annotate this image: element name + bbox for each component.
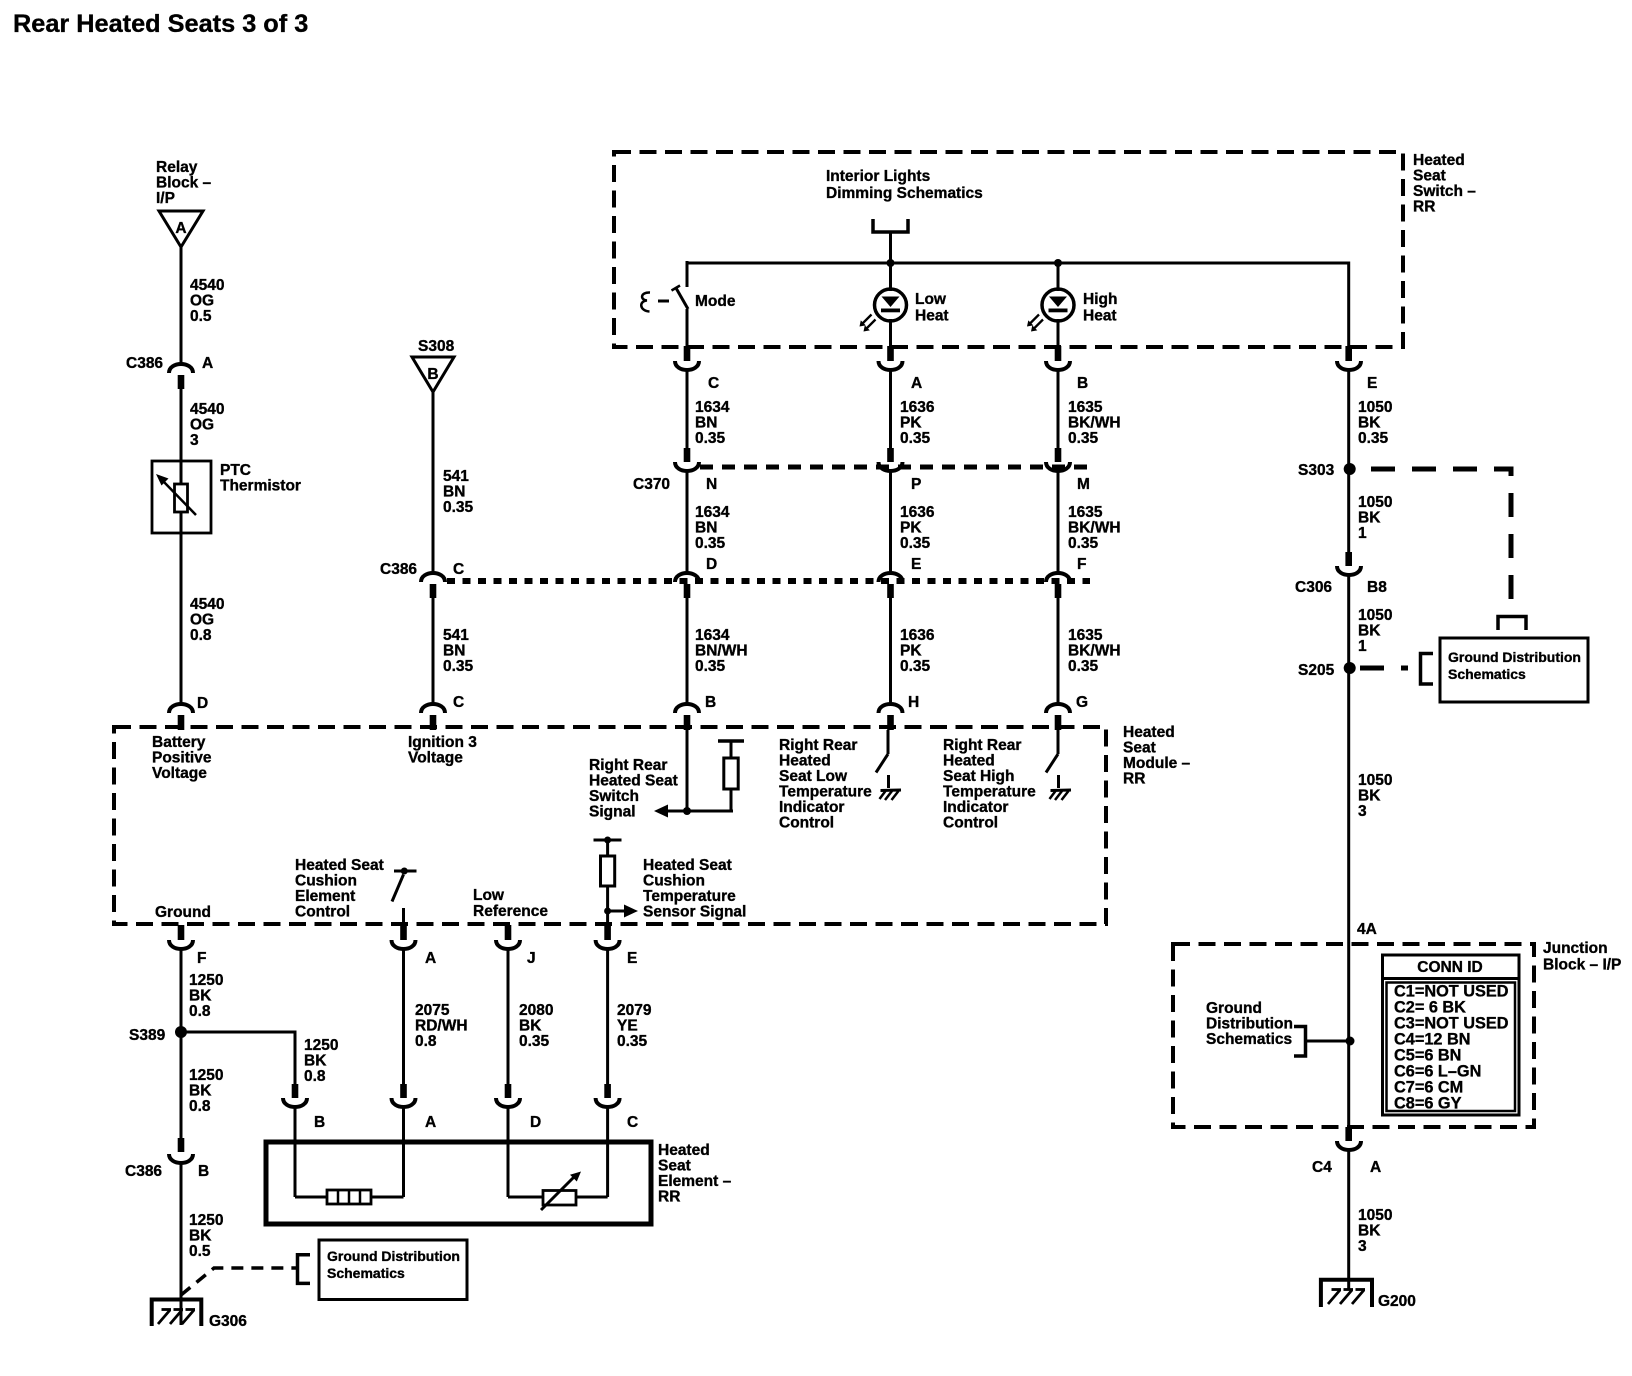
svg-text:B: B — [314, 1114, 325, 1131]
svg-text:OG: OG — [190, 417, 214, 434]
svg-text:Switch –: Switch – — [1413, 183, 1476, 200]
svg-text:0.5: 0.5 — [189, 1243, 211, 1260]
svg-text:F: F — [197, 950, 206, 967]
svg-text:YE: YE — [617, 1018, 638, 1035]
svg-text:3: 3 — [190, 432, 199, 449]
svg-text:BK: BK — [1358, 415, 1381, 432]
svg-text:Block – I/P: Block – I/P — [1543, 957, 1621, 974]
svg-text:541: 541 — [443, 468, 469, 485]
svg-text:Voltage: Voltage — [152, 765, 207, 782]
svg-text:Indicator: Indicator — [943, 799, 1008, 816]
svg-text:Seat: Seat — [658, 1158, 691, 1175]
svg-text:Low: Low — [915, 291, 947, 308]
svg-text:Control: Control — [943, 815, 998, 832]
svg-text:Seat Low: Seat Low — [779, 768, 848, 785]
svg-text:Switch: Switch — [589, 788, 639, 805]
svg-text:1635: 1635 — [1068, 504, 1103, 521]
svg-text:2075: 2075 — [415, 1002, 450, 1019]
svg-text:Heated: Heated — [943, 753, 995, 770]
svg-text:OG: OG — [190, 612, 214, 629]
svg-text:0.8: 0.8 — [189, 1003, 211, 1020]
svg-text:1250: 1250 — [189, 1067, 223, 1084]
svg-text:1634: 1634 — [695, 399, 730, 416]
svg-text:0.35: 0.35 — [519, 1033, 550, 1050]
svg-text:Right Rear: Right Rear — [943, 737, 1021, 754]
svg-text:Rear Heated Seats 3 of 3: Rear Heated Seats 3 of 3 — [13, 10, 308, 38]
svg-text:S389: S389 — [129, 1027, 166, 1044]
svg-text:D: D — [706, 556, 717, 573]
svg-text:Junction: Junction — [1543, 940, 1608, 957]
svg-text:C: C — [453, 561, 464, 578]
svg-text:M: M — [1077, 476, 1090, 493]
svg-text:Heated Seat: Heated Seat — [643, 857, 732, 874]
svg-text:BK: BK — [1358, 623, 1381, 640]
svg-text:PK: PK — [900, 643, 922, 660]
svg-text:CONN ID: CONN ID — [1417, 959, 1482, 976]
svg-text:D: D — [197, 695, 208, 712]
svg-text:0.35: 0.35 — [695, 430, 726, 447]
svg-text:BN: BN — [443, 484, 465, 501]
svg-text:Block –: Block – — [156, 175, 212, 192]
svg-text:C306: C306 — [1295, 579, 1332, 596]
svg-text:Module –: Module – — [1123, 755, 1191, 772]
svg-text:2079: 2079 — [617, 1002, 652, 1019]
svg-text:C386: C386 — [380, 561, 417, 578]
svg-text:RR: RR — [658, 1189, 680, 1206]
svg-text:G306: G306 — [209, 1313, 247, 1330]
svg-text:A: A — [911, 375, 922, 392]
svg-text:0.8: 0.8 — [189, 1098, 211, 1115]
svg-text:P: P — [911, 476, 921, 493]
svg-text:Sensor Signal: Sensor Signal — [643, 904, 746, 921]
svg-text:1250: 1250 — [189, 1212, 223, 1229]
svg-text:Cushion: Cushion — [643, 873, 705, 890]
svg-text:0.35: 0.35 — [1068, 535, 1099, 552]
svg-text:C: C — [708, 375, 719, 392]
svg-text:BK: BK — [189, 1228, 212, 1245]
svg-text:PK: PK — [900, 520, 922, 537]
svg-text:4540: 4540 — [190, 277, 224, 294]
svg-text:Cushion: Cushion — [295, 873, 357, 890]
svg-text:Thermistor: Thermistor — [220, 478, 301, 495]
svg-text:0.8: 0.8 — [190, 627, 212, 644]
svg-text:C370: C370 — [633, 476, 670, 493]
svg-text:BK: BK — [519, 1018, 542, 1035]
svg-text:S303: S303 — [1298, 462, 1335, 479]
svg-text:G: G — [1076, 694, 1088, 711]
svg-text:0.8: 0.8 — [415, 1033, 437, 1050]
svg-text:RR: RR — [1413, 199, 1435, 216]
svg-text:Heated Seat: Heated Seat — [589, 773, 678, 790]
svg-text:Battery: Battery — [152, 734, 206, 751]
svg-text:Indicator: Indicator — [779, 799, 844, 816]
svg-text:Right Rear: Right Rear — [779, 737, 857, 754]
svg-text:Schematics: Schematics — [327, 1265, 405, 1281]
svg-text:I/P: I/P — [156, 190, 175, 207]
svg-text:1: 1 — [1358, 525, 1367, 542]
svg-text:3: 3 — [1358, 803, 1367, 820]
svg-text:Heated Seat: Heated Seat — [295, 857, 384, 874]
svg-text:1636: 1636 — [900, 627, 935, 644]
svg-text:0.35: 0.35 — [1068, 430, 1099, 447]
svg-text:1635: 1635 — [1068, 399, 1103, 416]
svg-text:BN: BN — [695, 520, 717, 537]
svg-text:4540: 4540 — [190, 596, 224, 613]
svg-text:Mode: Mode — [695, 293, 736, 310]
svg-text:0.35: 0.35 — [443, 499, 474, 516]
svg-text:B: B — [427, 366, 438, 383]
svg-text:2080: 2080 — [519, 1002, 553, 1019]
svg-text:A: A — [1370, 1159, 1381, 1176]
svg-text:1635: 1635 — [1068, 627, 1103, 644]
svg-text:Distribution: Distribution — [1206, 1016, 1293, 1033]
svg-text:C386: C386 — [126, 355, 163, 372]
svg-text:Schematics: Schematics — [1448, 666, 1526, 682]
svg-text:Relay: Relay — [156, 159, 198, 176]
svg-text:0.35: 0.35 — [695, 658, 726, 675]
svg-text:OG: OG — [190, 293, 214, 310]
svg-text:3: 3 — [1358, 1238, 1367, 1255]
svg-text:S308: S308 — [418, 338, 455, 355]
svg-text:4A: 4A — [1357, 921, 1377, 938]
svg-text:Ground: Ground — [1206, 1000, 1262, 1017]
svg-text:C386: C386 — [125, 1163, 162, 1180]
svg-text:BK: BK — [304, 1053, 327, 1070]
svg-text:4540: 4540 — [190, 401, 224, 418]
svg-text:0.35: 0.35 — [695, 535, 726, 552]
svg-text:N: N — [706, 476, 717, 493]
svg-text:Heated: Heated — [658, 1142, 710, 1159]
svg-text:1634: 1634 — [695, 504, 730, 521]
svg-text:S205: S205 — [1298, 662, 1335, 679]
svg-text:Low: Low — [473, 887, 505, 904]
svg-text:1636: 1636 — [900, 504, 935, 521]
svg-text:Right Rear: Right Rear — [589, 757, 667, 774]
svg-text:RD/WH: RD/WH — [415, 1018, 468, 1035]
svg-text:Positive: Positive — [152, 750, 212, 767]
svg-text:0.35: 0.35 — [900, 535, 931, 552]
svg-text:B: B — [198, 1163, 209, 1180]
svg-text:PK: PK — [900, 415, 922, 432]
svg-text:E: E — [1367, 375, 1377, 392]
svg-text:BK/WH: BK/WH — [1068, 520, 1121, 537]
svg-text:Heated: Heated — [1413, 152, 1465, 169]
svg-text:PTC: PTC — [220, 462, 251, 479]
svg-text:Ground Distribution: Ground Distribution — [1448, 649, 1581, 665]
svg-text:Control: Control — [295, 904, 350, 921]
svg-text:Temperature: Temperature — [643, 888, 736, 905]
svg-text:Heat: Heat — [915, 308, 949, 325]
svg-text:Voltage: Voltage — [408, 750, 463, 767]
svg-text:Reference: Reference — [473, 903, 548, 920]
svg-text:H: H — [908, 694, 919, 711]
svg-text:B: B — [705, 694, 716, 711]
svg-text:Seat: Seat — [1413, 168, 1446, 185]
svg-text:0.35: 0.35 — [900, 430, 931, 447]
svg-text:BK: BK — [1358, 788, 1381, 805]
svg-text:0.35: 0.35 — [1358, 430, 1389, 447]
svg-text:C: C — [627, 1114, 638, 1131]
svg-text:BK: BK — [189, 1083, 212, 1100]
svg-text:Heat: Heat — [1083, 308, 1117, 325]
svg-text:B: B — [1077, 375, 1088, 392]
svg-text:C4: C4 — [1312, 1159, 1332, 1176]
svg-text:Temperature: Temperature — [943, 784, 1036, 801]
svg-text:BK: BK — [1358, 510, 1381, 527]
svg-text:0.35: 0.35 — [617, 1033, 648, 1050]
svg-text:BN: BN — [443, 643, 465, 660]
svg-text:High: High — [1083, 291, 1117, 308]
svg-text:RR: RR — [1123, 771, 1145, 788]
svg-text:A: A — [202, 355, 213, 372]
svg-text:541: 541 — [443, 627, 469, 644]
svg-text:BN: BN — [695, 415, 717, 432]
svg-text:Temperature: Temperature — [779, 784, 872, 801]
svg-text:A: A — [175, 220, 186, 237]
svg-text:J: J — [527, 950, 536, 967]
svg-text:0.5: 0.5 — [190, 308, 212, 325]
svg-text:1050: 1050 — [1358, 494, 1392, 511]
svg-text:A: A — [425, 1114, 436, 1131]
svg-text:0.8: 0.8 — [304, 1068, 326, 1085]
svg-text:Element –: Element – — [658, 1173, 732, 1190]
svg-text:0.35: 0.35 — [443, 658, 474, 675]
svg-text:1: 1 — [1358, 638, 1367, 655]
svg-text:BK/WH: BK/WH — [1068, 415, 1121, 432]
svg-text:Control: Control — [779, 815, 834, 832]
svg-text:Signal: Signal — [589, 804, 636, 821]
svg-text:Element: Element — [295, 888, 355, 905]
svg-text:0.35: 0.35 — [900, 658, 931, 675]
svg-text:E: E — [911, 556, 921, 573]
svg-text:Seat: Seat — [1123, 740, 1156, 757]
svg-text:Ground: Ground — [155, 904, 211, 921]
svg-text:Heated: Heated — [779, 753, 831, 770]
svg-text:1050: 1050 — [1358, 772, 1392, 789]
svg-text:BK/WH: BK/WH — [1068, 643, 1121, 660]
svg-text:Schematics: Schematics — [1206, 1031, 1292, 1048]
svg-text:F: F — [1077, 556, 1086, 573]
svg-text:D: D — [530, 1114, 541, 1131]
svg-text:A: A — [425, 950, 436, 967]
svg-text:E: E — [627, 950, 637, 967]
svg-text:Seat High: Seat High — [943, 768, 1014, 785]
svg-text:BN/WH: BN/WH — [695, 643, 748, 660]
svg-text:Dimming Schematics: Dimming Schematics — [826, 185, 983, 202]
svg-text:C: C — [453, 694, 464, 711]
svg-text:1050: 1050 — [1358, 399, 1392, 416]
svg-text:Ignition 3: Ignition 3 — [408, 734, 477, 751]
svg-text:1050: 1050 — [1358, 607, 1392, 624]
svg-text:Interior Lights: Interior Lights — [826, 168, 930, 185]
svg-text:B8: B8 — [1367, 579, 1387, 596]
svg-text:1250: 1250 — [189, 972, 223, 989]
svg-text:Heated: Heated — [1123, 724, 1175, 741]
svg-text:G200: G200 — [1378, 1293, 1416, 1310]
svg-text:1250: 1250 — [304, 1037, 338, 1054]
svg-text:1050: 1050 — [1358, 1207, 1392, 1224]
svg-text:1634: 1634 — [695, 627, 730, 644]
svg-text:C8=6 GY: C8=6 GY — [1394, 1095, 1462, 1113]
svg-text:BK: BK — [1358, 1223, 1381, 1240]
svg-text:0.35: 0.35 — [1068, 658, 1099, 675]
svg-text:Ground Distribution: Ground Distribution — [327, 1248, 460, 1264]
svg-text:1636: 1636 — [900, 399, 935, 416]
svg-text:BK: BK — [189, 988, 212, 1005]
